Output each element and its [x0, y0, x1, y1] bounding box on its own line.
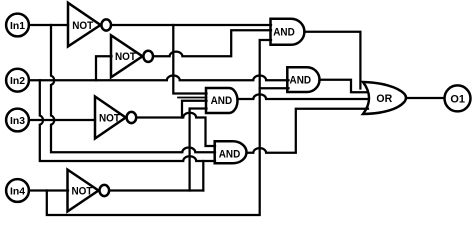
- svg-text:O1: O1: [450, 93, 465, 105]
- wire In4 branch bottom rail up to AND1 input 3: [47, 40, 271, 215]
- input node In4: [6, 179, 29, 202]
- wire AND3 output to OR input 3: [238, 94, 369, 99]
- AND gate A4: [215, 141, 247, 163]
- wire NOT3 branch up to AND3 input 3: [182, 101, 207, 118]
- wire NOT1 output to AND1 input 1: [112, 24, 272, 26]
- wire bus to AND2 input 2: [260, 87, 289, 89]
- wire AND1 output to OR input 1: [305, 32, 361, 89]
- NOT gate U1 triangle: [68, 3, 101, 47]
- wire In3 to NOT3: [29, 119, 95, 121]
- wire NOT2 output to AND1 input 2: [154, 30, 271, 56]
- svg-text:AND: AND: [211, 95, 233, 107]
- AND gate A1: [271, 19, 305, 45]
- input node In1: [6, 14, 29, 37]
- svg-text:In2: In2: [10, 75, 25, 87]
- svg-text:In3: In3: [10, 115, 25, 127]
- svg-text:AND: AND: [290, 75, 312, 87]
- NOT gate U3 bubble: [127, 112, 137, 123]
- NOT gate U2 triangle: [111, 35, 143, 77]
- input node In2: [6, 69, 29, 92]
- wire NOT4 riser to AND4 input 3: [202, 161, 204, 191]
- svg-text:NOT: NOT: [99, 112, 120, 124]
- AND gate A3: [206, 88, 238, 113]
- wire NOT4 bus up to AND3 input 4: [190, 109, 207, 191]
- svg-text:OR: OR: [376, 93, 392, 105]
- wire NOT3 output to AND4 input 1: [137, 113, 215, 146]
- wire In2 branch down to AND4 input 3: [40, 80, 215, 161]
- svg-text:In4: In4: [10, 185, 25, 197]
- NOT gate U1 bubble: [101, 19, 111, 30]
- svg-text:NOT: NOT: [72, 20, 93, 32]
- NOT gate U4 triangle: [68, 170, 99, 212]
- NOT gate U4 bubble: [100, 185, 110, 196]
- wire NOT1 bus down to AND3 input 1: [173, 25, 206, 94]
- wire OR output to O1: [407, 97, 444, 99]
- NOT gate U2 bubble: [143, 51, 153, 62]
- wire In1 to NOT1: [29, 24, 68, 26]
- wire NOT4 output: [110, 189, 203, 191]
- svg-text:AND: AND: [273, 27, 295, 39]
- svg-text:AND: AND: [219, 148, 241, 160]
- svg-text:NOT: NOT: [72, 185, 93, 197]
- output node O1: [445, 85, 471, 111]
- wire AND2 output to OR input 2: [320, 80, 368, 93]
- wire stub AND3 input 2: [178, 97, 207, 99]
- NOT gate U3 triangle: [95, 97, 126, 139]
- wire In1 branch down to AND4 input 2: [51, 25, 215, 152]
- wire In2 line to AND2 input 1: [29, 76, 289, 81]
- svg-text:In1: In1: [10, 20, 25, 32]
- wire In4 to NOT4: [29, 189, 68, 191]
- wire In2 riser to NOT2 input: [96, 56, 112, 80]
- svg-text:NOT: NOT: [115, 51, 136, 63]
- AND gate A2: [287, 67, 319, 92]
- wire AND4 output to OR input 4: [247, 109, 369, 153]
- OR gate O: [363, 82, 406, 114]
- input node In3: [6, 109, 29, 132]
